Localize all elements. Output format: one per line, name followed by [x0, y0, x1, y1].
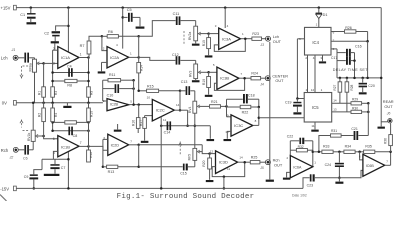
svg-text:R22: R22: [242, 111, 249, 115]
op-amp IC3B: [213, 63, 242, 89]
wire pin2 column: [367, 41, 369, 78]
node R15/R14: [137, 90, 140, 93]
node IC3d input: [208, 152, 211, 155]
wire IC2d -in: [103, 138, 108, 140]
node rail/D1: [318, 6, 321, 9]
svg-text:5: 5: [130, 99, 132, 103]
svg-text:Rch: Rch: [1, 148, 9, 153]
svg-text:OUT: OUT: [275, 79, 284, 83]
svg-text:R36: R36: [383, 138, 387, 144]
wire RV4 to R21: [209, 105, 211, 107]
svg-text:12: 12: [311, 88, 315, 92]
wire wiper to IC1b -in: [44, 136, 58, 139]
svg-text:C2: C2: [44, 32, 49, 36]
svg-text:J2: J2: [9, 155, 14, 159]
ground below RV3: [192, 80, 200, 82]
op-amp IC2D: [104, 134, 133, 155]
node rail/IC2a supply: [121, 6, 124, 9]
svg-text:Fig.1- Surround Sound Decod: Fig.1- Surround Sound Decoder: [117, 193, 255, 201]
svg-text:IC6A: IC6A: [293, 165, 302, 169]
node IC3a output: [241, 37, 252, 40]
wire IC2a out to C12: [139, 57, 176, 60]
svg-text:IC1B: IC1B: [61, 144, 70, 149]
node R29 out: [367, 102, 370, 105]
node RV1b wiper: [42, 135, 45, 138]
svg-text:IC2B: IC2B: [110, 103, 119, 107]
wire C24 line to IC6b: [339, 170, 363, 177]
wire RV1a bottom to 0V: [34, 72, 36, 103]
svg-text:C24: C24: [325, 163, 331, 167]
op-amp IC3D: [210, 149, 243, 173]
output jack J4: [259, 74, 288, 86]
wire IC1a V+ column: [67, 8, 69, 52]
wire C3 to RV1a: [34, 58, 36, 59]
resistor R24: [251, 72, 265, 80]
ground bar mid: [114, 124, 122, 132]
rear output jack J6: [383, 99, 394, 123]
node IC2c output: [174, 109, 187, 111]
svg-text:R26: R26: [345, 26, 352, 30]
svg-text:R19: R19: [202, 79, 206, 85]
wire 0V rail: [16, 102, 103, 104]
resistor R27: [333, 78, 342, 103]
svg-text:R29: R29: [352, 98, 358, 102]
ground IC2a +in: [98, 62, 107, 73]
Lch input jack J1: [1, 48, 18, 61]
svg-text:IC4: IC4: [312, 40, 319, 45]
svg-text:RV1a: RV1a: [29, 63, 33, 71]
svg-text:IC3D: IC3D: [219, 159, 228, 164]
svg-text:R30: R30: [352, 106, 358, 110]
node fb right: [87, 121, 90, 132]
node IC2d output: [129, 144, 140, 147]
svg-text:R24: R24: [251, 72, 258, 76]
node bus/C20: [353, 77, 364, 80]
capacitor C15: [180, 164, 195, 176]
wire to C2: [56, 26, 69, 31]
resistor R16: [132, 103, 140, 133]
svg-text:CENTER: CENTER: [272, 74, 288, 78]
node 0V/pots: [32, 102, 35, 105]
resistor R14: [137, 36, 144, 91]
resistor R7: [80, 36, 102, 57]
svg-text:IC3C: IC3C: [234, 123, 243, 128]
node 0V/R1R2: [42, 102, 45, 105]
resistor R2: [37, 103, 45, 136]
svg-text:J3: J3: [259, 43, 264, 47]
op-amp IC6A: [286, 156, 316, 178]
-15V supply terminal: [0, 186, 16, 191]
svg-text:R9: R9: [90, 91, 94, 95]
resistor R25: [250, 156, 265, 164]
node bus/R28: [346, 77, 349, 80]
svg-text:OUT: OUT: [274, 162, 283, 167]
node rail/IC1a supply: [67, 6, 70, 9]
svg-text:R1: R1: [37, 91, 41, 95]
ground below R20: [206, 180, 214, 182]
ganged dashes lower: [20, 120, 29, 131]
svg-text:12: 12: [210, 149, 214, 153]
node C24/ground line: [338, 177, 341, 180]
node R7/R6/IC2a: [101, 35, 104, 38]
node IC1b output: [79, 145, 90, 148]
wire wiper to IC1a +in: [44, 62, 58, 63]
wire IC2d out column: [137, 145, 140, 168]
wire IC6a fb left: [289, 141, 291, 156]
wire -15V rail: [16, 187, 303, 189]
resistor R10b: [87, 103, 94, 122]
resistor R17: [139, 116, 146, 141]
node C5 takeoff: [121, 16, 124, 19]
resistor R36: [383, 123, 392, 152]
node IC3c -in: [225, 105, 228, 108]
IC5 pin13/R30: [332, 106, 369, 113]
svg-text:1: 1: [130, 51, 132, 55]
svg-text:C8: C8: [73, 134, 78, 138]
svg-text:14: 14: [333, 98, 337, 102]
svg-text:IC2A: IC2A: [110, 55, 119, 60]
svg-text:RV4: RV4: [188, 106, 192, 113]
wire C15 line: [139, 166, 183, 168]
capacitor C1: [20, 8, 35, 22]
capacitor C10: [103, 84, 134, 97]
svg-text:R2: R2: [37, 113, 41, 117]
node IC6b output: [385, 151, 392, 166]
capacitor C4: [53, 64, 89, 76]
capacitor C22: [287, 134, 313, 144]
ground below C5: [136, 27, 145, 29]
svg-text:OUT: OUT: [384, 104, 393, 109]
resistor R3: [51, 87, 58, 97]
caption date: [292, 194, 307, 198]
resistor R1: [37, 63, 45, 102]
node IC1a output: [79, 56, 90, 59]
svg-text:R25: R25: [251, 156, 258, 160]
wire IC6a out column: [312, 141, 315, 167]
node C10 right: [132, 87, 135, 90]
wire IC2c V- down: [160, 117, 162, 189]
ground below RV2a: [192, 44, 200, 46]
resistor R10: [202, 34, 211, 56]
svg-text:C14: C14: [164, 131, 171, 135]
svg-text:R11: R11: [109, 73, 115, 77]
svg-text:1: 1: [80, 52, 82, 56]
resistor R32: [290, 145, 312, 152]
svg-text:13: 13: [333, 108, 337, 112]
svg-text:Date 1/92: Date 1/92: [292, 194, 307, 198]
svg-text:OUT: OUT: [273, 39, 282, 44]
svg-text:C7: C7: [61, 166, 66, 170]
svg-text:RV1b: RV1b: [27, 133, 31, 141]
capacitor C9: [24, 170, 42, 189]
svg-text:C22: C22: [287, 134, 293, 138]
output jack J3: [259, 34, 281, 47]
wire IC3a V+ column: [224, 8, 226, 28]
wire IC2b -in: [103, 100, 107, 102]
svg-text:0V: 0V: [2, 101, 7, 106]
svg-text:3: 3: [215, 24, 217, 28]
svg-text:11: 11: [163, 118, 166, 122]
caption Fig.1: [117, 193, 255, 201]
svg-text:IC2C: IC2C: [156, 108, 165, 113]
node 0V/R9R10: [87, 102, 90, 105]
svg-text:4: 4: [227, 24, 229, 28]
svg-text:J6: J6: [386, 112, 391, 116]
svg-text:11: 11: [227, 167, 230, 171]
capacitor C16: [337, 45, 362, 78]
svg-text:IC6B: IC6B: [366, 164, 375, 168]
capacitor C7: [50, 159, 65, 173]
wire node to IC2a -in: [102, 36, 107, 50]
svg-text:11: 11: [311, 124, 314, 128]
svg-text:J5: J5: [259, 166, 264, 170]
svg-text:C15: C15: [180, 172, 187, 176]
wire R29R30 column: [367, 103, 369, 135]
resistor R28: [345, 78, 354, 112]
potentiometer RV5: [187, 148, 202, 166]
diode D1: [316, 8, 328, 28]
node fb left: [51, 121, 54, 132]
svg-text:C11: C11: [173, 12, 180, 16]
ground below R10: [205, 55, 213, 57]
svg-text:6: 6: [359, 154, 361, 158]
node R30 out: [367, 111, 370, 114]
svg-text:C1: C1: [20, 13, 25, 17]
potentiometer RV4: [188, 101, 210, 148]
svg-text:C6: C6: [23, 157, 28, 161]
svg-text:6: 6: [53, 137, 55, 141]
node RV4 bottom: [194, 125, 197, 128]
svg-text:C21: C21: [351, 127, 357, 131]
svg-text:2: 2: [333, 38, 335, 42]
capacitor C8: [68, 127, 77, 138]
wire to IC3c ground: [207, 126, 215, 141]
node RV2a wiper junction: [207, 32, 210, 35]
svg-text:R10: R10: [202, 40, 206, 46]
IC5 clock generator: [304, 88, 332, 122]
node 0V/R3R4: [51, 102, 54, 105]
svg-text:C16: C16: [355, 45, 362, 49]
IC5 pin11 ground: [311, 122, 318, 132]
ground IC6a +in: [283, 172, 290, 179]
wire R13 fb column: [102, 139, 105, 168]
svg-text:R21: R21: [211, 100, 218, 104]
RV2a wiper wire: [198, 32, 208, 35]
svg-text:R34: R34: [345, 144, 351, 148]
svg-text:3: 3: [53, 62, 55, 66]
wire IC1b +in: [53, 151, 57, 159]
IC4 left pin wire: [297, 39, 304, 99]
wire IC1a -in: [53, 49, 58, 51]
resistor R8: [53, 79, 89, 87]
thick bar below C7: [44, 174, 60, 176]
svg-text:8: 8: [255, 119, 257, 123]
svg-text:1: 1: [316, 22, 318, 26]
resistor R9: [87, 87, 94, 97]
ground below C19: [293, 112, 301, 114]
wire out to IC3d input: [139, 145, 210, 154]
svg-text:C5: C5: [127, 8, 132, 12]
capacitor C17: [331, 56, 356, 65]
wire to C11: [139, 21, 176, 37]
op-amp IC2C: [147, 95, 180, 121]
svg-text:7: 7: [386, 160, 388, 164]
op-amp IC3A: [215, 24, 244, 50]
ground on 0V rail: [63, 103, 71, 108]
svg-text:C12: C12: [172, 53, 179, 57]
corner mark: [0, 195, 7, 202]
ganged dashes RV2a-RV3: [183, 31, 185, 44]
resistor R23: [252, 32, 266, 40]
svg-text:R27: R27: [333, 85, 337, 91]
svg-text:1: 1: [314, 161, 316, 165]
wire IC2a V+ column: [122, 8, 124, 49]
svg-text:-15V: -15V: [0, 186, 9, 191]
wire out to R33: [313, 151, 322, 154]
svg-text:7: 7: [240, 72, 242, 76]
wire C8 line: [53, 128, 89, 131]
svg-text:10: 10: [147, 95, 151, 99]
svg-text:+15V: +15V: [1, 5, 11, 10]
wire delay set bus: [337, 77, 381, 79]
svg-text:5: 5: [213, 63, 215, 67]
svg-text:IC3A: IC3A: [222, 37, 231, 42]
capacitor C12: [172, 53, 196, 64]
node IC2b output: [129, 103, 139, 106]
IC4 pin6/R26: [299, 30, 344, 41]
svg-text:R13: R13: [108, 170, 115, 174]
0V supply terminal: [2, 101, 16, 106]
resistor R31: [319, 129, 341, 152]
svg-text:R20: R20: [202, 160, 206, 166]
svg-text:C17: C17: [331, 56, 337, 60]
svg-text:C23: C23: [307, 184, 313, 188]
wire IC1b out to IC2d: [89, 146, 108, 150]
svg-text:RV5: RV5: [187, 154, 191, 161]
ganged dashes RV4-RV5: [179, 142, 182, 155]
+15V supply terminal: [1, 5, 17, 10]
ground below C1: [27, 22, 37, 24]
wire right supply drop: [380, 8, 382, 125]
wire to IC3a +in: [209, 33, 219, 35]
svg-text:14: 14: [239, 155, 243, 159]
capacitor C14: [164, 121, 171, 134]
capacitor C18: [227, 94, 259, 107]
wire right rail to jack: [381, 122, 388, 127]
wire IC3c out to IC5: [259, 117, 304, 119]
svg-text:R7: R7: [80, 44, 85, 48]
svg-text:R8: R8: [67, 84, 72, 88]
op-amp IC2A: [103, 43, 132, 68]
capacitor C20: [359, 78, 375, 92]
svg-text:R35: R35: [365, 144, 371, 148]
capacitor C3: [18, 53, 35, 63]
svg-text:2: 2: [103, 46, 105, 50]
wire output column x88.5: [88, 58, 90, 151]
node C4 ends: [51, 71, 89, 74]
svg-text:4: 4: [116, 43, 118, 47]
node IC3b output: [239, 77, 251, 80]
svg-text:IC3B: IC3B: [220, 76, 229, 81]
node IC2a output: [129, 56, 140, 59]
wire IC2b fb column: [103, 80, 134, 104]
wire C6 to RV1b: [32, 141, 34, 149]
wire IC3b feedback: [214, 78, 244, 90]
wire IC2c out down: [186, 110, 189, 127]
svg-text:J1: J1: [11, 48, 16, 52]
svg-text:D1: D1: [323, 13, 328, 17]
wire to IC3b +in: [209, 71, 217, 73]
resistor R21: [210, 100, 227, 108]
wire IC1b feedback top: [53, 103, 89, 128]
svg-text:R3: R3: [54, 91, 58, 95]
node +15V/C1: [30, 6, 33, 9]
node -15V/IC1b col: [67, 152, 70, 190]
node rail/IC3a supply: [224, 6, 227, 9]
svg-text:Lch: Lch: [1, 56, 8, 61]
node R33/R34: [338, 151, 341, 154]
wire IC3d feedback: [212, 162, 245, 176]
svg-text:R33: R33: [323, 144, 329, 148]
IC4 bottom pins: [305, 55, 322, 93]
wire y159 bus: [42, 159, 68, 169]
svg-text:C13: C13: [181, 80, 188, 84]
svg-text:C20: C20: [368, 84, 374, 88]
svg-text:C9: C9: [24, 175, 29, 179]
ground below R19: [205, 95, 213, 97]
capacitor C11: [173, 12, 196, 25]
svg-text:R28: R28: [350, 85, 354, 91]
resistor feedback (R-IC1b): [65, 121, 77, 124]
op-amp IC2B: [103, 99, 132, 111]
svg-text:7: 7: [80, 141, 82, 145]
resistor R26: [345, 26, 368, 42]
resistor R11: [103, 73, 134, 82]
resistor R13: [103, 165, 139, 174]
wire jack ground bus: [269, 42, 271, 179]
IC4 pin2 wire: [331, 38, 369, 42]
capacitor C23: [303, 174, 339, 188]
svg-text:C10: C10: [107, 93, 114, 97]
IC4 pin5 wire: [331, 47, 337, 78]
op-amp IC1B: [53, 136, 82, 157]
op-amp IC3C: [225, 113, 256, 136]
node R8 ends: [51, 80, 89, 83]
op-amp IC1A: [53, 47, 82, 69]
wire R34 node to IC6b -in: [360, 152, 363, 160]
output jack J5: [259, 158, 283, 171]
ground right rail: [378, 127, 385, 129]
svg-text:R16: R16: [132, 120, 136, 126]
wire feedback column x52.6: [52, 50, 54, 103]
svg-text:R15: R15: [147, 85, 154, 89]
svg-text:14: 14: [176, 103, 180, 107]
ground IC3c +in: [224, 131, 232, 141]
node bus/right rail: [366, 77, 382, 80]
resistor R20: [202, 154, 212, 180]
node C2 takeoff: [67, 25, 70, 28]
svg-text:J4: J4: [259, 82, 264, 86]
wire +15V rail: [16, 7, 381, 9]
node R6/IC2a out column: [137, 35, 140, 38]
capacitor C13: [180, 80, 195, 95]
IC4 bucket-brigade delay: [305, 22, 332, 55]
svg-text:C18: C18: [248, 94, 255, 98]
node R34/R35: [358, 151, 361, 154]
capacitor C5: [123, 8, 140, 26]
node RV3 wiper junction: [207, 71, 210, 74]
resistor R22: [227, 105, 261, 114]
